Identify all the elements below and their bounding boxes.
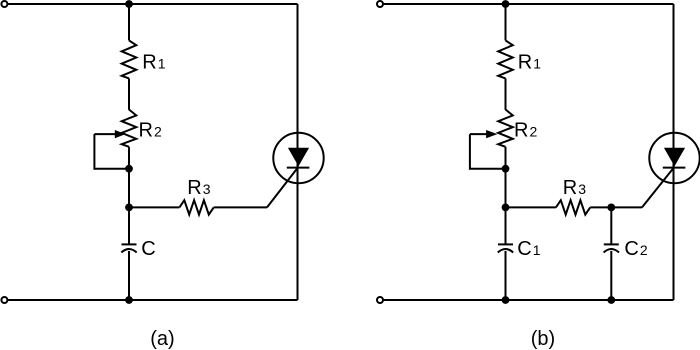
resistor R3 (b) xyxy=(556,200,590,214)
SCR U1 (a) cathode bar xyxy=(287,167,310,169)
svg-text:C1: C1 xyxy=(517,238,540,260)
junction dot (b) bottom node left xyxy=(502,296,510,304)
wire (b) gate node to C1 xyxy=(505,207,507,243)
resistor R1 (a) xyxy=(122,40,137,78)
SCR U2 (b) triangle xyxy=(664,148,685,166)
resistor R3 (a) xyxy=(179,200,213,214)
capacitor C (a) curved plate xyxy=(121,249,136,253)
wire (a) top node to R1 xyxy=(128,4,130,40)
terminal J2 (a) bottom-left xyxy=(1,297,7,303)
junction dot (a) bottom node xyxy=(125,296,133,304)
wire (b) C1 to bottom rail xyxy=(505,251,507,300)
junction dot (a) wiper node xyxy=(125,165,133,173)
wire (a) gate node to R3 xyxy=(129,206,179,208)
capacitor C1 (b) curved plate xyxy=(498,249,513,253)
svg-text:R2: R2 xyxy=(139,120,162,142)
wire right rail (b) anode lead xyxy=(673,4,675,300)
svg-text:(a): (a) xyxy=(150,328,174,350)
wire (b) C2 to bottom rail xyxy=(610,251,612,300)
wire (a) R1 to R2 xyxy=(128,78,130,109)
junction dot (b) C2 node xyxy=(607,204,615,212)
wiper arrow R2 (b) xyxy=(470,133,487,135)
wire right rail (a) anode lead xyxy=(297,4,299,300)
capacitor C2 (b) curved plate xyxy=(604,249,619,253)
wire (a) R2 to gate node xyxy=(128,147,130,208)
wire (b) C2 node to C2 xyxy=(610,207,612,243)
potentiometer R2 (b) body xyxy=(498,110,513,147)
wire (b) R1 to R2 xyxy=(505,78,507,109)
wire top rail (b) xyxy=(383,3,673,5)
junction dot (b) top node xyxy=(502,0,510,8)
wire (a) gate node to C xyxy=(128,207,130,243)
resistor R1 (b) xyxy=(498,40,513,78)
svg-text:R3: R3 xyxy=(563,177,586,199)
wire (a) C to bottom rail xyxy=(128,251,130,300)
junction dot (b) bottom node right xyxy=(607,296,615,304)
wire (b) R2 to gate node xyxy=(505,147,507,208)
junction dot (b) wiper node xyxy=(502,165,510,173)
SCR U1 (a) envelope circle xyxy=(273,133,323,183)
wire (a) gate diagonal xyxy=(267,168,298,208)
potentiometer R2 (a) body xyxy=(122,110,137,147)
junction dot (a) top node xyxy=(125,0,133,8)
wire bottom rail (a) xyxy=(8,299,298,301)
svg-text:R2: R2 xyxy=(514,120,537,142)
capacitor C1 (b) top plate xyxy=(498,243,513,245)
junction dot (b) gate node xyxy=(502,204,510,212)
capacitor C2 (b) top plate xyxy=(604,243,619,245)
svg-text:C2: C2 xyxy=(624,238,647,260)
junction dot (a) gate node xyxy=(125,204,133,212)
wire (b) R3 to C2 node xyxy=(590,206,611,208)
SCR U1 (a) triangle xyxy=(288,148,309,166)
svg-text:C: C xyxy=(141,238,155,260)
terminal J3 (b) top-left xyxy=(377,1,383,7)
capacitor C (a) top plate xyxy=(122,243,137,245)
wire wiper loop (a) xyxy=(94,134,126,169)
wire (b) gate node to R3 xyxy=(506,206,556,208)
svg-text:R3: R3 xyxy=(187,177,210,199)
svg-text:R1: R1 xyxy=(142,51,165,73)
wire (a) R3 to gate diagonal xyxy=(214,206,267,208)
wiper arrow R2 (a) xyxy=(94,133,115,135)
svg-text:R1: R1 xyxy=(518,51,541,73)
wire wiper loop (b) xyxy=(470,134,503,169)
SCR U2 (b) envelope circle xyxy=(649,133,699,183)
SCR U2 (b) cathode bar xyxy=(663,167,686,169)
wire bottom rail (b) xyxy=(383,299,673,301)
wire (b) C2 node to gate diagonal xyxy=(611,206,642,208)
terminal J4 (b) bottom-left xyxy=(377,297,383,303)
svg-text:(b): (b) xyxy=(531,328,555,350)
wire (b) top node to R1 xyxy=(505,4,507,40)
wire (b) gate diagonal xyxy=(642,168,674,208)
terminal J1 (a) top-left xyxy=(1,1,7,7)
wire top rail (a) xyxy=(8,3,298,5)
